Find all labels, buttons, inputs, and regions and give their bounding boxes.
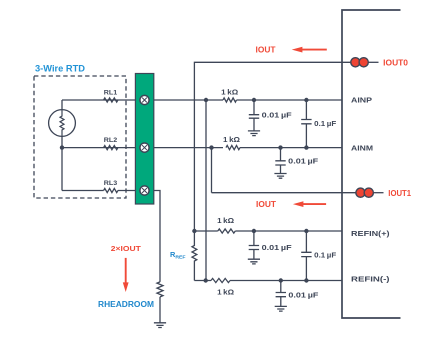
IC U1 (ADC) outline, open right side: [342, 10, 401, 318]
svg-text:RL2: RL2: [104, 137, 118, 144]
node: REFIN+ cap junction: [252, 229, 256, 233]
svg-text:0.01 µF: 0.01 µF: [262, 243, 293, 252]
svg-text:RL1: RL1: [104, 90, 118, 97]
arrow IOUT lower (left): [303, 203, 326, 205]
terminal screw 1: [140, 95, 149, 104]
resistor RL1: [104, 98, 118, 102]
dashed box 3-wire RTD: [34, 76, 126, 198]
node: AINP 0.1uF junction: [304, 98, 308, 102]
wire: RTD vertical x=62: [61, 100, 63, 191]
wire: IOUT0 pin row from node A down-turn, y=62.3: [194, 62, 355, 231]
svg-text:0.01 µF: 0.01 µF: [262, 110, 293, 119]
pin IOUT0 (red terminals): [351, 58, 360, 67]
ground (AINP cap): [248, 131, 260, 136]
svg-text:3-Wire RTD: 3-Wire RTD: [35, 62, 85, 73]
capacitor 0.01uF AINP: [249, 100, 259, 131]
wire: REFIN(-) row y=280.5: [194, 280, 342, 282]
svg-text:AINP: AINP: [351, 96, 372, 105]
node: RL2/C junction: [209, 145, 213, 149]
svg-text:AINM: AINM: [351, 143, 373, 152]
svg-text:RREF: RREF: [170, 250, 186, 260]
wire: REFIN(+) row y=231: [194, 230, 342, 232]
svg-text:1 kΩ: 1 kΩ: [223, 135, 240, 144]
resistor 1k AINM row: [226, 146, 240, 150]
terminal screw 2: [140, 143, 149, 152]
svg-text:0.1 µF: 0.1 µF: [314, 251, 337, 260]
wire: node B vertical x=206 (RL1 node to REFIN- row): [205, 100, 207, 281]
svg-text:IOUT: IOUT: [256, 200, 276, 209]
ground (REFIN+ cap): [248, 259, 260, 264]
wire: IOUT0 pin link to label: [369, 61, 379, 63]
svg-text:1 kΩ: 1 kΩ: [221, 87, 238, 96]
RTD sensor (circle with element): [49, 110, 76, 137]
node: AINM 0.1uF junction: [304, 145, 308, 149]
ground (REFIN- cap): [275, 306, 287, 311]
svg-text:0.01 µF: 0.01 µF: [288, 290, 319, 299]
node: RTD bottom junction: [60, 145, 64, 149]
resistor 1k AINP row: [223, 98, 237, 102]
ground (RHEADROOM): [154, 323, 166, 328]
wire: RL2/AINM row y=147.6: [62, 147, 223, 149]
terminal block (green bar): [135, 74, 153, 205]
resistor RL3: [104, 188, 118, 192]
wire: IOUT1 pin link to label: [374, 192, 384, 194]
svg-text:RHEADROOM: RHEADROOM: [98, 299, 154, 309]
svg-text:REFIN(-): REFIN(-): [351, 275, 390, 284]
wire: RL3 row y=190.5 to headroom drop x=160: [62, 191, 160, 282]
svg-text:1 kΩ: 1 kΩ: [217, 287, 234, 296]
capacitor 0.01uF AINM: [275, 148, 285, 174]
node: AINP cap junction: [252, 98, 256, 102]
svg-text:RL3: RL3: [104, 180, 118, 187]
capacitor 0.01uF REFIN+: [249, 231, 259, 259]
terminal screw 3: [140, 186, 149, 195]
ground (AINM cap): [274, 174, 286, 179]
wire: IOUT1 pin row y=192.7: [212, 192, 361, 194]
svg-text:IOUT0: IOUT0: [383, 58, 408, 67]
svg-text:0.01 µF: 0.01 µF: [288, 157, 319, 166]
pin IOUT1 (red terminals): [356, 188, 365, 197]
node: RL1/1k/B junction: [204, 98, 208, 102]
capacitor 0.01uF REFIN-: [276, 281, 286, 307]
resistor 1k REFIN(+) row: [218, 229, 236, 233]
svg-text:IOUT: IOUT: [256, 45, 276, 54]
wire: node C vertical x=211.5 (RL2 node to IOUT1 row): [211, 148, 213, 193]
wire: RL1/AINP row y=100: [62, 99, 223, 101]
svg-text:1 kΩ: 1 kΩ: [217, 216, 234, 225]
svg-text:2×IOUT: 2×IOUT: [111, 244, 142, 253]
node: REFIN- 0.1uF junction: [304, 278, 308, 282]
capacitor 0.1uF REFIN: [301, 231, 311, 281]
resistor RREF vertical x=194.4: [192, 231, 197, 281]
capacitor 0.1uF AIN: [301, 100, 311, 148]
arrow IOUT top (left): [302, 49, 327, 51]
resistor 1k REFIN(-) row: [211, 278, 230, 282]
node: REFIN+ 0.1uF junction: [304, 229, 308, 233]
svg-text:REFIN(+): REFIN(+): [351, 229, 390, 238]
node: AINM cap junction: [278, 145, 282, 149]
node: RREF top junction: [192, 229, 196, 233]
wire: RHEADROOM lower lead to ground: [159, 297, 161, 323]
node: REFIN- cap junction: [279, 278, 283, 282]
node: RREF bottom/B junction: [204, 278, 208, 282]
arrow 2xIOUT (down): [125, 258, 127, 283]
svg-text:IOUT1: IOUT1: [388, 189, 411, 198]
svg-text:0.1 µF: 0.1 µF: [314, 119, 337, 128]
resistor RL2: [104, 146, 118, 150]
resistor RHEADROOM vertical x=160: [157, 282, 163, 297]
